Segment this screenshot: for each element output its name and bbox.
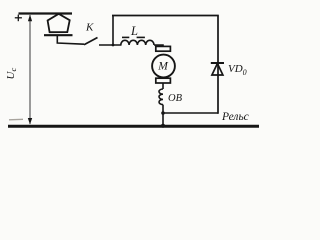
inductor L winding (121, 40, 154, 45)
svg-text:Uc: Uc (5, 68, 18, 80)
top loop wire (112, 15, 219, 17)
wire motor to OB (162, 83, 164, 89)
plus polarity mark (15, 15, 22, 22)
wire pantograph to switch (57, 35, 84, 44)
right loop wire down (217, 16, 219, 114)
pantograph body (48, 14, 70, 32)
motor top brush (156, 46, 171, 51)
wire switch to node (99, 44, 122, 46)
field winding OB (159, 89, 163, 105)
junction dot node B (161, 111, 165, 115)
rail (8, 125, 259, 128)
wire node up (112, 16, 114, 46)
Uc bottom arrowhead (28, 118, 32, 125)
Uc dimension line (29, 15, 31, 124)
wire L to motor (154, 45, 163, 47)
svg-text:L: L (130, 24, 138, 38)
svg-text:ОВ: ОВ (168, 93, 183, 104)
pantograph base bar (44, 34, 73, 36)
node junction (112, 44, 115, 47)
diode VD0 triangle (212, 64, 223, 76)
wire OB to rail (162, 105, 164, 126)
junction dot at rail (161, 124, 165, 128)
svg-text:M: M (157, 61, 169, 73)
svg-text:Рельс: Рельс (221, 111, 249, 123)
inductor L core dashes (122, 36, 145, 38)
diode VD0 cathode bar (211, 62, 224, 64)
svg-text:K: K (85, 22, 94, 34)
motor bottom brush (156, 78, 171, 83)
contact wire (19, 12, 73, 14)
Uc top arrowhead (28, 15, 32, 22)
motor M armature circle (152, 55, 175, 78)
switch K blade (84, 38, 98, 45)
scan smudge (9, 118, 23, 121)
wire node B to diode (163, 112, 218, 114)
svg-text:VD0: VD0 (228, 63, 247, 77)
